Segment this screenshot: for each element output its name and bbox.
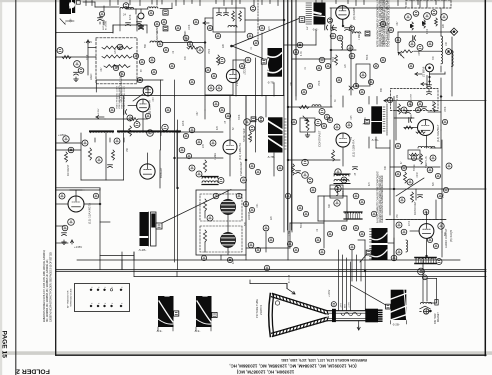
- wire v x441: [440, 8, 442, 36]
- tone box: [408, 150, 420, 159]
- svg-text:-5-C-: -5-C-: [312, 28, 318, 32]
- +135v arrow2: [96, 108, 104, 118]
- svg-text:22K: 22K: [443, 23, 445, 28]
- wire bus v x292: [291, 0, 293, 232]
- notes text block: [376, 0, 391, 47]
- sync label b: [239, 161, 243, 176]
- svg-text:820: 820: [433, 181, 435, 186]
- V13 callout b: [62, 225, 68, 231]
- V11 res b: [420, 154, 423, 164]
- svg-text:.033: .033: [153, 97, 155, 102]
- left callout a: [63, 136, 69, 142]
- CRT hv arrow: [250, 275, 331, 297]
- choke blob: [370, 245, 388, 260]
- V12 callout b: [396, 222, 402, 228]
- antenna matching marks: [60, 18, 74, 24]
- deflection yoke blob: [140, 212, 157, 246]
- svg-text:.02: .02: [317, 228, 319, 232]
- svg-text:2.2K: 2.2K: [237, 81, 239, 86]
- svg-text:120: 120: [345, 63, 347, 68]
- ion trap label: [434, 312, 440, 324]
- ni res a: [411, 22, 414, 30]
- svg-text:56K: 56K: [145, 43, 147, 48]
- ni diode a: [410, 24, 414, 28]
- svg-text:+135V: +135V: [349, 301, 351, 308]
- mixer tube V1: [98, 11, 160, 30]
- snd cap a: [418, 195, 423, 198]
- yoke diag pointer: [162, 190, 231, 224]
- ion trap dot: [429, 310, 431, 312]
- osc tube V2: [120, 9, 144, 31]
- V5 callout b: [337, 35, 343, 41]
- CRT base (black): [365, 309, 382, 323]
- CRT yoke label box: [386, 304, 391, 309]
- svg-text:(12) 12BH7A: (12) 12BH7A: [352, 140, 356, 157]
- svg-text:FOLDER 2: FOLDER 2: [16, 367, 50, 374]
- contrast coil: [312, 105, 321, 106]
- crt pin wires: [0, 0, 1, 1]
- svg-text:EMERSON MODELS 1376, 1377, 137: EMERSON MODELS 1376, 1377, 1378, 1379, 1…: [281, 358, 367, 362]
- horiz out tube V11 6AV5: [418, 120, 434, 136]
- svg-text:150: 150: [397, 213, 399, 218]
- vbox arrow: [187, 6, 256, 47]
- speaker callout: [418, 268, 425, 275]
- tuner wire c: [103, 6, 105, 11]
- V13 ground: [62, 240, 66, 245]
- tone label: [413, 164, 416, 171]
- notes text block 2: [376, 171, 384, 223]
- schematic border right: [484, 0, 486, 356]
- svg-text:1 MEG: 1 MEG: [215, 153, 217, 160]
- vert xfmr callout: [218, 178, 224, 184]
- V13 callout top: [59, 193, 65, 199]
- svg-text:+4KV: +4KV: [341, 302, 343, 308]
- V8 label: [159, 167, 163, 178]
- svg-text:33K: 33K: [385, 165, 387, 170]
- V5 callout c: [347, 45, 353, 51]
- 6av5 guts: [394, 101, 441, 133]
- pointer joint: [231, 45, 233, 47]
- damper tube V13 12AX4: [68, 196, 84, 212]
- hold box coil: [337, 187, 339, 196]
- svg-text:8.2K: 8.2K: [383, 39, 385, 44]
- crt anode star: [275, 297, 360, 330]
- CRT picture tube funnel: [269, 294, 366, 337]
- V6 label: [422, 66, 426, 77]
- CRT grid callout: [331, 302, 336, 307]
- ni callout a: [405, 14, 412, 21]
- audio xfmr: [415, 257, 436, 263]
- svg-text:220K: 220K: [183, 120, 185, 126]
- svg-text:AUDIO OUTPUT: AUDIO OUTPUT: [444, 228, 448, 248]
- wire bus v x262: [261, 33, 263, 96]
- ratio label: [413, 201, 417, 215]
- yoke box outline: [196, 190, 246, 255]
- svg-text:(13) 12AX4GTA: (13) 12AX4GTA: [88, 203, 92, 224]
- ni arrow: [398, 52, 404, 58]
- diag pointer to IF2: [232, 46, 263, 59]
- ni callout h: [0, 0, 1, 1]
- svg-text:(14) 6AV5GT: (14) 6AV5GT: [436, 124, 440, 142]
- left res: [65, 152, 68, 162]
- wire v x394: [393, 97, 395, 261]
- divider rule a: [56, 269, 486, 271]
- video det label 45.75: [183, 31, 187, 42]
- tone res: [0, 0, 1, 1]
- wire bus h y96 right: [384, 99, 486, 102]
- mid callout c: [307, 178, 313, 184]
- dc rest label: [66, 164, 70, 176]
- page margin rule 2: [15, 0, 17, 375]
- svg-text:.047: .047: [397, 21, 399, 26]
- wire bus v x284: [283, 0, 285, 232]
- callout field: [93, 3, 448, 271]
- V5 callout e: [368, 79, 373, 84]
- V12 callout a: [438, 223, 444, 229]
- svg-text:C: C: [122, 286, 124, 288]
- wire bus v x174: [174, 96, 176, 262]
- svg-text:470K: 470K: [261, 116, 263, 122]
- V11 coil plate: [418, 146, 435, 148]
- wire mesh 2: [56, 0, 442, 311]
- V6 res a: [0, 0, 1, 1]
- choke label box: [366, 250, 371, 255]
- svg-text:.01: .01: [251, 46, 253, 50]
- contrast ground: [305, 133, 309, 138]
- contrast box res: [306, 120, 309, 131]
- video out tube V7 12BY7A: [137, 99, 150, 112]
- +135V label b: [71, 240, 83, 249]
- IF T2 top wire: [316, 0, 322, 3]
- agc callout 4: [78, 68, 84, 74]
- ni callout g: [417, 45, 423, 51]
- svg-text:HORIZ: HORIZ: [247, 212, 251, 220]
- wire bus v x288: [287, 0, 289, 260]
- agc callout 3: [74, 61, 81, 68]
- video box coil: [228, 26, 237, 28]
- ni diode b: [422, 21, 426, 25]
- gated beam tube V6: [426, 64, 434, 85]
- svg-text:+135V: +135V: [98, 108, 100, 115]
- V12 wire plate: [426, 238, 428, 256]
- video box cap a: [217, 8, 222, 16]
- svg-text:4700: 4700: [427, 28, 429, 34]
- V5 label: [352, 7, 356, 20]
- CRT yoke diag: [351, 285, 386, 305]
- V5 box right: [356, 64, 370, 86]
- video xfmr bar: [90, 130, 180, 132]
- V9 label: [238, 143, 242, 160]
- det callout 7: [208, 85, 214, 91]
- dashed v x258: [257, 0, 259, 42]
- svg-text:VERT: VERT: [187, 36, 189, 42]
- video det res R21: [187, 46, 197, 49]
- V7 callout a: [127, 115, 133, 121]
- svg-text:E: E: [122, 302, 124, 304]
- svg-text:.0047: .0047: [417, 172, 419, 178]
- svg-text:2.2M: 2.2M: [397, 95, 399, 100]
- svg-text:VERT LIN: VERT LIN: [424, 156, 428, 168]
- sound takeoff label: [155, 26, 159, 40]
- PAGE 15 (vertical): [1, 331, 8, 359]
- video xfmr winding: [91, 131, 180, 132]
- agc resistor R12: [102, 55, 132, 58]
- mid callout a: [302, 159, 309, 166]
- V6 callout b: [0, 0, 1, 1]
- wire bus v x134: [133, 252, 135, 277]
- speaker field blob: [370, 228, 388, 243]
- svg-text:.005: .005: [419, 51, 421, 56]
- tuner wire a: [83, 2, 119, 7]
- svg-text:22K: 22K: [223, 43, 225, 48]
- svg-text:10K: 10K: [446, 41, 448, 46]
- V11 callout b: [430, 155, 436, 161]
- svg-text:330: 330: [433, 55, 435, 60]
- svg-text:15K: 15K: [127, 147, 129, 152]
- contrast box: [300, 118, 315, 132]
- V13 wire right: [84, 203, 100, 205]
- 6bn6 arrows: [415, 72, 445, 86]
- ni callout c: [424, 13, 431, 20]
- agc resistor R11: [102, 46, 132, 49]
- video xfmr box mid: [105, 133, 107, 180]
- CRT yoke blob (black): [391, 290, 407, 320]
- flyback B ticks: [194, 327, 211, 333]
- wire v x255: [255, 58, 257, 152]
- mid res: [292, 164, 295, 175]
- svg-text:-5-2B-: -5-2B-: [392, 323, 400, 327]
- models list text (vertical): [42, 250, 53, 322]
- svg-text:TERMINAL GUIDE: TERMINAL GUIDE: [70, 288, 73, 307]
- wire yoke stub: [220, 255, 222, 260]
- ion trap magnet circle: [420, 309, 429, 314]
- svg-text:+135V: +135V: [74, 245, 82, 249]
- V5 coil2: [349, 26, 370, 36]
- svg-text:TONE: TONE: [413, 164, 416, 171]
- snd res a: [404, 172, 407, 183]
- svg-text:47K: 47K: [217, 125, 219, 130]
- svg-text:E: E: [92, 302, 94, 304]
- V10 callout c: [335, 169, 341, 175]
- svg-text:.02: .02: [351, 136, 353, 140]
- svg-text:BRT: BRT: [345, 303, 347, 308]
- IF T2 callout: [327, 18, 332, 23]
- wire bus h y188 left: [56, 187, 100, 189]
- V5 marks: [349, 86, 353, 90]
- hold box: [330, 185, 343, 198]
- svg-text:100K: 100K: [189, 24, 191, 30]
- svg-text:12K: 12K: [251, 135, 253, 140]
- svg-text:+140V: +140V: [84, 40, 92, 44]
- audio xfmr callout: [436, 259, 442, 265]
- V12 label: [444, 228, 453, 248]
- det wire low: [205, 83, 233, 95]
- yoke dashed box bottom: [200, 226, 242, 252]
- det res R25: [217, 55, 220, 65]
- yoke res b: [203, 230, 206, 242]
- svg-text:21ATP4: 21ATP4: [259, 305, 263, 315]
- tuner callout 1: [148, 10, 168, 31]
- dashed wire y219: [386, 219, 446, 221]
- svg-text:270K: 270K: [87, 54, 89, 60]
- CRT neck wires up: [339, 250, 351, 311]
- tuner box outline: [56, 25, 147, 33]
- det callout 8: [216, 85, 222, 91]
- contrast res: [299, 105, 309, 108]
- video xfmr box bot: [81, 179, 124, 181]
- det tube label: [243, 60, 247, 75]
- IF T2 ticks below: [312, 25, 334, 31]
- video box res b: [239, 11, 242, 21]
- contrast label: [318, 130, 322, 147]
- svg-text:39: 39: [335, 99, 337, 102]
- V8 wire: [147, 153, 149, 164]
- svg-text:TO CHASSIS GROUND. LINE VOLTAG: TO CHASSIS GROUND. LINE VOLTAGE AT 117 V…: [387, 0, 391, 47]
- ni diamond: [450, 28, 457, 35]
- svg-text:-5-9-: -5-9-: [194, 329, 200, 333]
- agc ground 1: [74, 77, 78, 82]
- sync callout a: [244, 119, 251, 126]
- svg-text:E: E: [99, 302, 101, 304]
- top edge stubs: [86, 0, 436, 6]
- V5 cap b: [345, 28, 350, 31]
- V11 label2: [424, 156, 428, 168]
- agc wire y57: [56, 56, 96, 58]
- svg-text:2700: 2700: [409, 220, 411, 226]
- V9 callout a: [189, 165, 195, 171]
- ni wire h y50: [0, 0, 1, 1]
- tuner wire b: [126, 8, 148, 10]
- V9 callout c: [210, 140, 216, 146]
- V13 callout a: [68, 219, 75, 226]
- tuner wire d: [135, 9, 137, 14]
- svg-text:560: 560: [411, 113, 413, 118]
- hv tube V8: [140, 164, 155, 179]
- tuner label: [119, 72, 123, 103]
- V12 wire grid: [410, 230, 419, 232]
- V10 res a: [332, 150, 335, 161]
- svg-text:-18-: -18-: [69, 18, 73, 23]
- svg-text:27K: 27K: [203, 143, 205, 148]
- V7 res: [129, 126, 132, 136]
- svg-text:220: 220: [271, 215, 273, 220]
- agc res R14: [62, 55, 71, 58]
- mid wire y160: [288, 159, 340, 161]
- CRT neck ring (black): [332, 309, 336, 322]
- svg-text:C: C: [112, 286, 114, 288]
- wire v x465: [0, 0, 1, 1]
- svg-text:68K: 68K: [381, 87, 383, 92]
- V10 callout d: [341, 177, 347, 183]
- ni callout d: [431, 10, 437, 16]
- video box res a: [232, 11, 235, 21]
- terminal dots: [90, 286, 124, 307]
- det diode tube V4: [226, 69, 239, 82]
- svg-text:(8) 6AQ5: (8) 6AQ5: [449, 229, 453, 242]
- vx res a: [88, 148, 91, 160]
- schematic border left: [55, 0, 57, 355]
- svg-text:E: E: [112, 302, 114, 304]
- vert hold xfmr: [334, 174, 350, 184]
- ni cap: [413, 36, 416, 41]
- terminal board label: [67, 288, 73, 308]
- svg-text:560K: 560K: [367, 54, 369, 60]
- snd callout c: [399, 197, 405, 203]
- ni callout f: [409, 41, 415, 47]
- svg-text:(11) 12BH7A: (11) 12BH7A: [238, 143, 242, 160]
- IF T2 label box: [299, 17, 305, 23]
- top dashed box: [406, 0, 451, 8]
- yoke dashed box top: [200, 194, 242, 221]
- ni callout b: [413, 11, 419, 17]
- yoke coil bottom: [221, 233, 236, 248]
- svg-text:BRIGHT: BRIGHT: [159, 167, 163, 178]
- svg-text:82K: 82K: [245, 221, 247, 226]
- left V wires: [56, 142, 81, 144]
- vert out tube V10: [336, 133, 350, 147]
- y51 link: [401, 49, 451, 55]
- V11 cap: [409, 118, 412, 123]
- svg-text:.25: .25: [355, 172, 357, 176]
- svg-text:3.3K: 3.3K: [443, 193, 445, 198]
- tuner small box: [163, 10, 168, 15]
- tuner tube V3: [143, 86, 153, 96]
- svg-text:(7) 6BN6: (7) 6BN6: [422, 66, 426, 77]
- svg-text:39K: 39K: [329, 203, 331, 208]
- snd callout a: [446, 163, 452, 169]
- video box cap b: [224, 8, 229, 16]
- svg-text:-5-2B-: -5-2B-: [138, 248, 146, 252]
- svg-text:24: 24: [123, 13, 126, 17]
- vert xfmr winding: [202, 177, 218, 185]
- V9 res: [203, 160, 206, 172]
- ni callout e: [441, 14, 448, 21]
- wire bus v x205: [204, 18, 206, 110]
- V6 cap a: [427, 85, 432, 88]
- svg-text:1500: 1500: [209, 48, 211, 54]
- V7 callout c: [147, 130, 154, 137]
- contrast callout b: [324, 114, 329, 119]
- vx callout c: [96, 157, 102, 163]
- svg-text:PHASE DET: PHASE DET: [239, 161, 243, 176]
- svg-text:.047: .047: [157, 29, 159, 34]
- flyback winding A (black): [158, 296, 174, 327]
- svg-text:330K: 330K: [239, 114, 241, 120]
- IF T4 ticks below: [267, 155, 275, 159]
- quad coil: [441, 36, 453, 72]
- V7 wire plate: [142, 112, 144, 132]
- svg-text:(9) 6AW8: (9) 6AW8: [352, 7, 356, 20]
- svg-text:82: 82: [233, 127, 235, 130]
- quad coil wire: [440, 78, 442, 97]
- vx callout b: [114, 138, 120, 144]
- V13 plate cap wire: [70, 190, 82, 196]
- flyback B label box: [212, 312, 217, 317]
- agc dashed box: [96, 38, 137, 84]
- flyback A label box: [174, 311, 179, 316]
- svg-text:C: C: [92, 286, 94, 288]
- IF transformer T3 (can): [267, 48, 282, 77]
- svg-text:AF TRANSISTOR: AF TRANSISTOR: [67, 290, 70, 308]
- V9 wire y158: [178, 157, 224, 159]
- V10 callout b: [346, 122, 352, 128]
- yoke callout a: [207, 215, 213, 221]
- svg-text:(CH, 120391M, MC, 120384M, MC,: (CH, 120391M, MC, 120384M, MC, 120385M, …: [229, 364, 356, 369]
- sync callout c: [241, 177, 247, 183]
- ni label 4.5mc: [0, 0, 1, 1]
- V10 label: [352, 140, 356, 157]
- video det wire: [162, 42, 205, 44]
